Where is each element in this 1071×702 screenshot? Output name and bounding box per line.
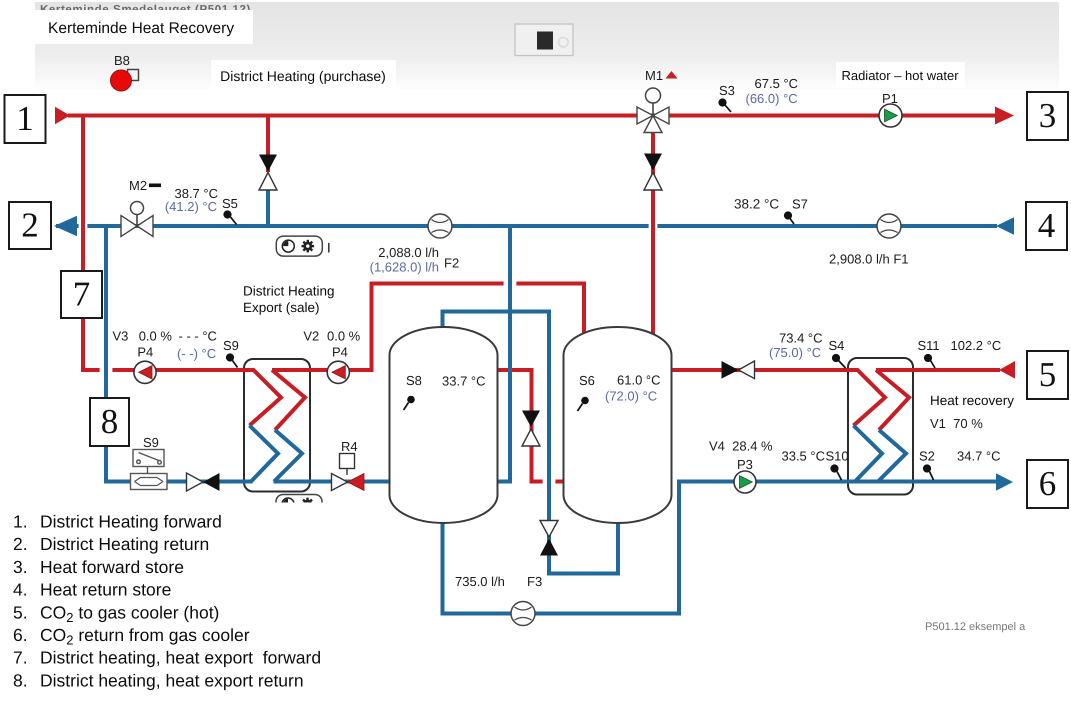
- svg-text:- - - °C: - - - °C: [179, 329, 217, 344]
- svg-text:73.4 °C: 73.4 °C: [779, 331, 823, 346]
- svg-text:M2: M2: [129, 178, 147, 193]
- svg-text:67.5 °C: 67.5 °C: [755, 76, 799, 91]
- svg-text:Heat forward store: Heat forward store: [40, 557, 184, 577]
- svg-text:3.: 3.: [13, 557, 28, 577]
- svg-text:S7: S7: [792, 197, 808, 212]
- svg-text:34.7 °C: 34.7 °C: [957, 449, 1001, 464]
- svg-text:(41.2) °C: (41.2) °C: [165, 199, 217, 214]
- svg-text:S4: S4: [829, 338, 845, 353]
- svg-text:Heat recovery: Heat recovery: [930, 393, 1014, 408]
- svg-text:P501.12 eksempel a: P501.12 eksempel a: [925, 621, 1026, 633]
- svg-text:Radiator – hot water: Radiator – hot water: [841, 68, 959, 83]
- svg-text:S2: S2: [919, 449, 935, 464]
- svg-text:S8: S8: [406, 373, 422, 388]
- svg-text:S10: S10: [826, 449, 849, 464]
- svg-text:V3: V3: [113, 329, 129, 344]
- svg-text:38.2 °C: 38.2 °C: [734, 197, 779, 212]
- svg-text:District Heating forward: District Heating forward: [40, 512, 222, 532]
- svg-text:0.0 %: 0.0 %: [139, 329, 173, 344]
- svg-text:F2: F2: [444, 256, 459, 271]
- svg-text:(- -) °C: (- -) °C: [177, 346, 216, 361]
- svg-text:1: 1: [16, 99, 34, 138]
- svg-text:0.0 %: 0.0 %: [327, 329, 361, 344]
- svg-text:(72.0) °C: (72.0) °C: [605, 389, 657, 404]
- svg-text:S9: S9: [223, 338, 239, 353]
- svg-text:P4: P4: [137, 345, 153, 360]
- svg-text:District heating, heat export: District heating, heat export forward: [40, 648, 321, 668]
- svg-text:S9: S9: [143, 435, 159, 450]
- svg-text:P1: P1: [882, 91, 898, 106]
- svg-text:CO2 to gas cooler (hot): CO2 to gas cooler (hot): [40, 602, 219, 625]
- svg-text:4.: 4.: [13, 580, 28, 600]
- svg-text:3: 3: [1039, 96, 1057, 135]
- svg-text:6.: 6.: [13, 625, 28, 645]
- svg-text:Kerteminde Heat Recovery: Kerteminde Heat Recovery: [48, 20, 234, 37]
- svg-text:S6: S6: [579, 373, 595, 388]
- svg-text:V2: V2: [303, 329, 319, 344]
- svg-text:Heat return store: Heat return store: [40, 580, 171, 600]
- svg-text:2.: 2.: [13, 534, 28, 554]
- svg-text:M1: M1: [645, 68, 663, 83]
- svg-text:F3: F3: [527, 574, 542, 589]
- svg-text:P4: P4: [332, 345, 348, 360]
- svg-text:4: 4: [1038, 206, 1056, 245]
- svg-text:33.7 °C: 33.7 °C: [442, 374, 486, 389]
- svg-text:7: 7: [73, 275, 91, 314]
- svg-text:S5: S5: [222, 196, 238, 211]
- svg-text:(75.0) °C: (75.0) °C: [769, 345, 821, 360]
- svg-text:I: I: [327, 240, 331, 256]
- svg-text:District Heating: District Heating: [243, 284, 335, 299]
- svg-text:102.2 °C: 102.2 °C: [951, 338, 1002, 353]
- svg-text:B8: B8: [114, 53, 130, 68]
- svg-text:District heating, heat export: District heating, heat export return: [40, 670, 304, 690]
- svg-text:2,908.0 l/h F1: 2,908.0 l/h F1: [829, 252, 909, 267]
- svg-text:Export (sale): Export (sale): [243, 300, 320, 315]
- svg-text:5: 5: [1039, 355, 1057, 394]
- svg-text:1.: 1.: [13, 512, 28, 532]
- svg-text:735.0 l/h: 735.0 l/h: [455, 574, 505, 589]
- svg-text:P3: P3: [737, 457, 753, 472]
- svg-text:7.: 7.: [13, 648, 28, 668]
- svg-text:S3: S3: [719, 83, 735, 98]
- svg-text:(66.0) °C: (66.0) °C: [746, 91, 798, 106]
- svg-text:District Heating (purchase): District Heating (purchase): [220, 68, 386, 84]
- svg-text:V4 28.4 %: V4 28.4 %: [709, 438, 773, 453]
- svg-text:5.: 5.: [13, 602, 28, 622]
- svg-text:33.5 °C: 33.5 °C: [781, 449, 825, 464]
- svg-text:(1,628.0) l/h: (1,628.0) l/h: [370, 260, 439, 275]
- svg-text:2: 2: [21, 206, 39, 245]
- svg-text:61.0 °C: 61.0 °C: [617, 373, 661, 388]
- svg-text:8: 8: [101, 402, 119, 441]
- svg-text:8.: 8.: [13, 670, 28, 690]
- svg-text:S11: S11: [918, 338, 940, 353]
- svg-text:CO2 return from gas cooler: CO2 return from gas cooler: [40, 625, 250, 648]
- svg-text:R4: R4: [341, 439, 358, 454]
- svg-text:V1 70 %: V1 70 %: [930, 416, 983, 431]
- svg-text:6: 6: [1039, 464, 1057, 503]
- svg-text:2,088.0 l/h: 2,088.0 l/h: [378, 245, 439, 260]
- svg-text:District Heating return: District Heating return: [40, 534, 209, 554]
